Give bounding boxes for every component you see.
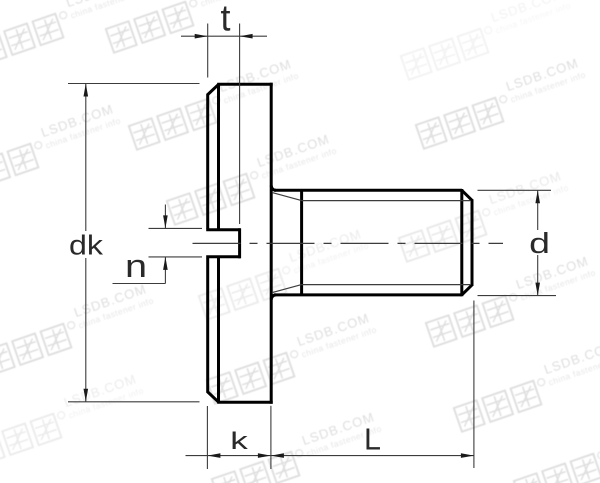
shank bottom edge [274,293,462,296]
L arrow left (points left) [271,453,284,458]
t dimension line [181,35,267,37]
head chamfer boundary line lower [217,258,220,402]
thread root line top [302,200,470,202]
d dimension line upper [537,190,539,230]
fillet head-shank top [271,186,276,191]
t arrow left (outside, points right) [195,34,208,39]
slot bottom face [238,228,241,258]
thread root line bottom [302,284,470,286]
d arrow bottom (points down) [535,283,540,296]
fillet head-shank bottom [271,295,276,300]
t arrow right (outside, points left) [240,34,253,39]
svg-text:L: L [364,423,381,457]
shank top edge [274,189,462,192]
k arrow right (points right) [258,453,271,458]
d dimension line lower [537,255,539,296]
end face [471,199,474,286]
head left face upper [206,94,209,229]
slot bottom edge [206,255,240,258]
thread runout diagonal top [272,193,301,201]
dk arrow bottom (points down) [84,389,89,402]
n extension line top [149,227,203,229]
k extension line left [206,406,208,469]
n label leader [113,283,166,285]
end chamfer diagonal bottom [462,285,472,295]
n extension line bottom [149,256,203,258]
end chamfer boundary line [460,189,463,296]
t extension line left [207,24,209,78]
t extension line right [239,24,241,225]
head bottom-left chamfer [208,392,219,402]
n arrow tail top [164,205,166,229]
k arrow left (points left) [207,453,220,458]
dk dimension line upper [85,84,87,232]
svg-text:n: n [125,248,147,285]
k and L dimension line [186,455,474,457]
L extension line right [473,301,475,469]
d extension line top [478,189,552,191]
n arrow top (points down) [163,215,168,228]
svg-text:dk: dk [69,230,104,261]
thread start line [300,190,303,295]
center line [193,242,504,244]
svg-text:k: k [230,428,249,454]
n arrow bottom (points up) [163,257,168,270]
head top-left chamfer [208,84,219,94]
head chamfer boundary line upper [217,85,220,229]
dk extension line top [68,83,200,85]
svg-text:d: d [529,228,550,260]
svg-text:t: t [221,0,231,39]
head top edge [217,83,273,86]
k/L shared extension line [270,406,272,469]
head bottom edge [217,401,273,404]
n arrow tail bottom [164,257,166,284]
end chamfer diagonal top [462,190,472,200]
L arrow right (points right) [461,453,474,458]
d arrow top (points up) [535,190,540,203]
d extension line bottom [478,295,557,297]
head right face [270,83,273,404]
dk arrow top (points up) [84,84,89,97]
dk dimension line lower [85,258,87,402]
thread runout diagonal bottom [272,285,301,293]
slot top edge [206,228,240,231]
dk extension line bottom [68,401,200,403]
head left face lower [206,258,209,393]
